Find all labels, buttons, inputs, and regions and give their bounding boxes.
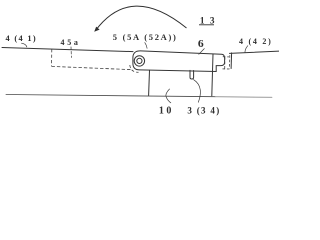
leader for 5(5A(52A)) xyxy=(145,43,147,49)
leader for 4(41) xyxy=(22,43,27,47)
svg-text:4 (4 1): 4 (4 1) xyxy=(6,34,37,43)
underline of 13 xyxy=(199,24,214,26)
hinge outer circle xyxy=(134,56,144,66)
hidden catch dashed box xyxy=(223,55,232,69)
rotation arrowhead xyxy=(94,27,99,32)
cover 5 outline with hinge ear xyxy=(133,51,225,72)
svg-text:6: 6 xyxy=(198,39,204,50)
body right edge vertical xyxy=(212,54,213,96)
wire bottom line left xyxy=(6,95,215,97)
svg-text:4 5 a: 4 5 a xyxy=(61,38,79,47)
wire bottom line right faint xyxy=(215,96,272,99)
body left edge vertical xyxy=(148,70,151,95)
hinge inner circle xyxy=(137,58,142,63)
rail right downturn flange xyxy=(230,53,233,69)
wire rail right 4(42) xyxy=(230,51,280,53)
wire rail left 4(41) xyxy=(2,48,133,52)
svg-text:3 (3 4): 3 (3 4) xyxy=(187,105,220,115)
phantom hinge arc dashed xyxy=(130,65,139,72)
svg-text:4 (4 2): 4 (4 2) xyxy=(239,37,273,46)
leader for 4(42) xyxy=(245,46,248,53)
leader for 10 xyxy=(166,89,171,103)
latch tab 3(34) xyxy=(190,70,194,79)
phantom cover bottom edge dashed xyxy=(52,66,132,69)
leader for 45a dashed xyxy=(70,47,72,58)
svg-text:1 0: 1 0 xyxy=(159,106,172,117)
phantom cover left edge dashed xyxy=(51,49,53,66)
leader for 3(34) xyxy=(194,80,201,103)
svg-text:5 (5A (52A)): 5 (5A (52A)) xyxy=(113,32,178,42)
rotation arrow arc xyxy=(96,6,187,30)
leader for 6 xyxy=(199,49,205,55)
